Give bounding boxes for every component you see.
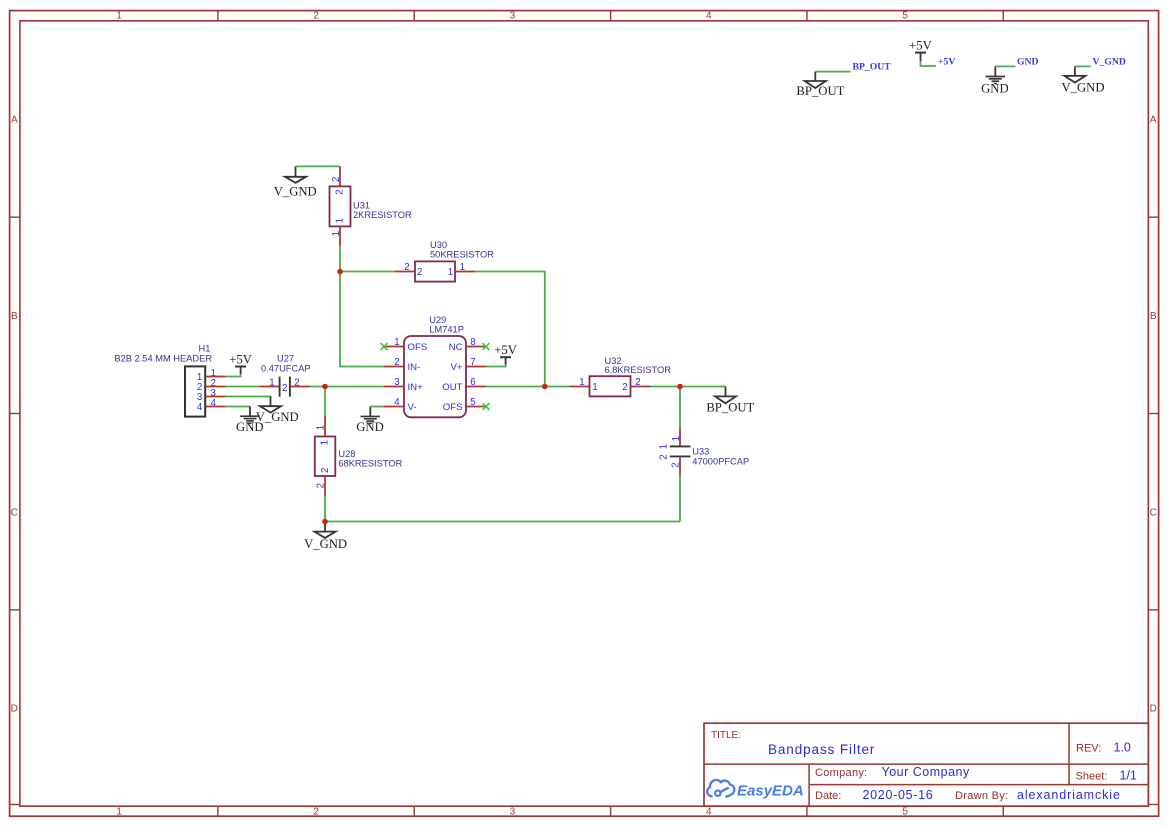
svg-text:V-: V- [408, 402, 417, 413]
svg-text:68KRESISTOR: 68KRESISTOR [338, 459, 402, 469]
wire [325, 386, 384, 388]
svg-text:2020-05-16: 2020-05-16 [863, 788, 934, 802]
svg-text:1: 1 [269, 377, 274, 388]
svg-text:OUT: OUT [442, 382, 462, 393]
svg-text:GND: GND [981, 82, 1009, 96]
wire [995, 65, 1015, 67]
svg-text:LM741P: LM741P [429, 325, 464, 335]
pin number 5 (U29) [470, 397, 475, 408]
svg-text:1/1: 1/1 [1120, 769, 1137, 783]
svg-text:U27: U27 [277, 354, 294, 364]
wire [1075, 65, 1091, 67]
svg-text:2: 2 [320, 468, 331, 473]
svg-text:6: 6 [470, 377, 475, 388]
pin number 2 (U32 right outside) [635, 377, 640, 388]
svg-text:B2B 2.54 MM HEADER: B2B 2.54 MM HEADER [114, 354, 212, 364]
pin number 2 (U31 top outside) [331, 177, 342, 182]
pin number 1 (U31 bottom outside) [331, 231, 342, 236]
net label BP_OUT [853, 61, 892, 72]
svg-text:V_GND: V_GND [1093, 56, 1126, 67]
svg-text:Drawn By:: Drawn By: [955, 790, 1008, 802]
wire [545, 386, 570, 388]
svg-text:2KRESISTOR: 2KRESISTOR [353, 210, 412, 220]
svg-text:4: 4 [211, 398, 217, 409]
label U33 47000PFCAP [692, 446, 749, 466]
pin number 2 (U28 bottom inside) [320, 468, 331, 473]
pin number 2 (U28 bottom outside) [316, 483, 327, 488]
pin number 2 (U33 outside) [671, 462, 682, 467]
svg-text:REV:: REV: [1076, 743, 1101, 755]
svg-text:4: 4 [706, 11, 712, 22]
resistor U30 [395, 261, 475, 281]
svg-text:Date:: Date: [815, 790, 841, 802]
svg-text:OFS: OFS [408, 342, 428, 353]
pin number 1 (U28 top inside) [320, 440, 331, 445]
svg-text:BP_OUT: BP_OUT [706, 401, 754, 415]
svg-text:OFS: OFS [443, 402, 463, 413]
svg-text:0.47UFCAP: 0.47UFCAP [261, 364, 311, 374]
svg-text:1: 1 [394, 337, 399, 348]
label U31 2KRESISTOR [353, 201, 412, 220]
pin number 2 (H1 inside) [197, 382, 202, 393]
svg-text:2: 2 [335, 190, 346, 195]
junction [677, 384, 683, 390]
svg-text:8: 8 [470, 337, 475, 348]
svg-text:4: 4 [394, 397, 400, 408]
svg-text:IN+: IN+ [408, 382, 424, 393]
svg-text:5: 5 [902, 11, 908, 22]
svg-text:B: B [1150, 311, 1157, 322]
svg-text:EasyEDA: EasyEDA [737, 782, 804, 799]
svg-text:+5V: +5V [909, 39, 932, 53]
wire [325, 521, 680, 523]
svg-text:2: 2 [404, 262, 409, 273]
svg-text:V_GND: V_GND [304, 537, 347, 551]
svg-text:GND: GND [356, 420, 384, 434]
wire [226, 374, 241, 376]
pin name IN+ (U29 pin3) [408, 382, 424, 393]
pin number 2 (U29) [394, 357, 399, 368]
pin number 8 (U29) [470, 337, 475, 348]
wire [815, 71, 850, 73]
header H1 B2B 2.54 MM HEADER [185, 366, 226, 416]
svg-text:1: 1 [316, 425, 327, 430]
pin number 1 (U27 outside) [269, 377, 274, 388]
label H1 B2B 2.54 MM HEADER [114, 343, 212, 363]
pin number 2 (U27 outside) [294, 377, 299, 388]
svg-text:3: 3 [394, 377, 399, 388]
wire [310, 386, 325, 388]
pin number 3 (U29) [394, 377, 399, 388]
pin number 1 (U33 inside) [659, 444, 670, 449]
ground V_GND (bottom) [304, 522, 347, 551]
pin name IN- (U29 pin2) [408, 362, 421, 373]
resistor U31 [330, 166, 351, 246]
net label +5V [938, 56, 955, 67]
svg-text:5: 5 [470, 397, 475, 408]
svg-text:1: 1 [116, 806, 122, 817]
svg-text:2: 2 [282, 383, 287, 394]
svg-text:5: 5 [902, 806, 908, 817]
svg-text:+5V: +5V [938, 56, 955, 67]
svg-text:V_GND: V_GND [1062, 80, 1105, 94]
pin number 2 (U27 inside) [282, 383, 287, 394]
power flag +5V (at U29 pin7) [494, 343, 517, 364]
resistor U32 [570, 376, 651, 396]
svg-text:BP_OUT: BP_OUT [796, 84, 844, 98]
svg-text:A: A [1150, 115, 1157, 126]
svg-text:V_GND: V_GND [274, 185, 317, 199]
svg-text:1: 1 [460, 262, 465, 273]
pin number 1 (U30 right inside) [448, 267, 453, 278]
pin number 2 (U31 top inside) [335, 190, 346, 195]
svg-text:C: C [11, 507, 18, 518]
svg-text:6.8KRESISTOR: 6.8KRESISTOR [605, 365, 672, 375]
pin name NC (U29 pin8) [449, 342, 463, 353]
pin name V+ (U29 pin7) [450, 362, 462, 373]
ground V_GND (at U31) [274, 166, 317, 198]
pin name V- (U29 pin4) [408, 402, 417, 413]
svg-text:1.0: 1.0 [1114, 741, 1131, 755]
svg-text:Bandpass Filter: Bandpass Filter [768, 742, 875, 757]
pin number 1 (U32 left outside) [579, 377, 584, 388]
ground GND (top right) [981, 66, 1009, 95]
wire [679, 476, 681, 522]
pin number 7 (U29) [470, 357, 475, 368]
pin number 1 (H1 inside) [197, 372, 202, 383]
svg-text:C: C [1150, 507, 1157, 518]
junction [337, 269, 343, 275]
pin number 1 (U33 outside) [671, 436, 682, 441]
net port BP_OUT (top right) [796, 72, 844, 99]
svg-text:2: 2 [622, 382, 627, 393]
svg-text:Your Company: Your Company [882, 765, 970, 779]
capacitor U33 47000PFCAP [670, 427, 691, 476]
ground V_GND (at H1 pin3) [256, 397, 299, 424]
wire [486, 365, 506, 367]
svg-text:3: 3 [510, 11, 516, 22]
ground GND (at H1 pin4) [236, 407, 264, 434]
svg-text:1: 1 [592, 382, 597, 393]
wire [921, 61, 937, 66]
svg-text:2: 2 [313, 11, 319, 22]
svg-text:2: 2 [417, 267, 422, 278]
wire [339, 246, 341, 271]
wire [679, 387, 681, 428]
pin name OUT (U29 pin6) [442, 382, 462, 393]
svg-text:4: 4 [197, 402, 203, 413]
svg-text:1: 1 [320, 440, 331, 445]
op-amp U29 LM741P [384, 336, 486, 417]
svg-text:U33: U33 [692, 446, 709, 456]
svg-text:1: 1 [116, 11, 122, 22]
svg-text:GND: GND [1017, 56, 1039, 67]
wire [475, 272, 545, 387]
svg-text:2: 2 [671, 462, 682, 467]
power flag +5V (top right) [909, 39, 932, 61]
pin number 4 (H1 outside) [211, 398, 217, 409]
label U27 0.47UFCAP [261, 354, 311, 374]
svg-text:D: D [11, 704, 18, 715]
wire [340, 272, 384, 367]
ground V_GND (top right) [1062, 66, 1105, 94]
svg-text:Company:: Company: [815, 767, 868, 779]
pin name OFS (U29 pin5) [443, 402, 463, 413]
svg-text:2: 2 [394, 357, 399, 368]
svg-text:2: 2 [331, 177, 342, 182]
wire [324, 387, 326, 417]
pin number 2 (U32 right inside) [622, 382, 627, 393]
pin number 4 (U29) [394, 397, 400, 408]
svg-text:4: 4 [706, 806, 712, 817]
pin name OFS (U29 pin1) [408, 342, 428, 353]
svg-text:7: 7 [470, 357, 475, 368]
label U32 6.8KRESISTOR [605, 356, 672, 375]
ground GND (at U29 pin4) [356, 407, 384, 435]
svg-text:2: 2 [635, 377, 640, 388]
svg-text:H1: H1 [199, 343, 211, 353]
svg-text:alexandriamckie: alexandriamckie [1017, 788, 1121, 802]
net port BP_OUT (right) [706, 387, 754, 415]
pin number 6 (U29) [470, 377, 475, 388]
svg-text:1: 1 [335, 218, 346, 223]
svg-text:2: 2 [294, 377, 299, 388]
pin number 1 (U28 top outside) [316, 425, 327, 430]
svg-text:TITLE:: TITLE: [711, 730, 741, 741]
svg-text:D: D [1150, 704, 1157, 715]
wire [226, 386, 260, 388]
svg-text:2: 2 [316, 483, 327, 488]
pin number 2 (H1 outside) [211, 378, 216, 389]
junction [542, 384, 548, 390]
pin number 3 (H1 inside) [197, 392, 202, 403]
pin number 1 (U29) [394, 337, 399, 348]
svg-text:1: 1 [659, 444, 670, 449]
wire [226, 406, 251, 408]
pin number 1 (H1 outside) [211, 368, 216, 379]
no-connect X (U29 pin1) [381, 343, 388, 350]
svg-text:2: 2 [659, 454, 670, 459]
svg-text:V+: V+ [450, 362, 462, 373]
label U28 68KRESISTOR [338, 449, 402, 468]
net label V_GND [1093, 56, 1126, 67]
svg-text:1: 1 [671, 436, 682, 441]
resistor U28 [315, 417, 336, 497]
label U30 50KRESISTOR [430, 240, 494, 259]
net label GND [1017, 56, 1039, 67]
svg-text:NC: NC [449, 342, 463, 353]
title block [704, 723, 1148, 806]
svg-text:3: 3 [510, 806, 516, 817]
pin number 2 (U33 inside) [659, 454, 670, 459]
wire [370, 406, 384, 408]
svg-text:IN-: IN- [408, 362, 421, 373]
svg-text:50KRESISTOR: 50KRESISTOR [430, 250, 494, 260]
svg-text:1: 1 [331, 231, 342, 236]
svg-text:Sheet:: Sheet: [1076, 771, 1108, 783]
power flag +5V (at H1 pin1) [229, 352, 252, 374]
pin number 1 (U32 left inside) [592, 382, 597, 393]
pin number 1 (U30 right outside) [460, 262, 465, 273]
wire [486, 386, 545, 388]
EasyEDA logo [707, 780, 804, 799]
pin number 4 (H1 inside) [197, 402, 203, 413]
wire [651, 386, 681, 388]
capacitor U27 0.47UFCAP [260, 377, 311, 397]
wire [324, 496, 326, 522]
wire [296, 165, 341, 167]
svg-text:1: 1 [579, 377, 584, 388]
svg-text:A: A [11, 115, 18, 126]
junction [322, 384, 328, 390]
wire [680, 386, 726, 388]
svg-text:GND: GND [236, 420, 264, 434]
pin number 2 (U30 left inside) [417, 267, 422, 278]
svg-text:2: 2 [313, 806, 319, 817]
svg-text:B: B [11, 311, 18, 322]
pin number 2 (U30 left outside) [404, 262, 409, 273]
wire [340, 271, 395, 273]
junction [322, 519, 328, 525]
svg-text:+5V: +5V [229, 352, 252, 366]
svg-text:BP_OUT: BP_OUT [853, 61, 892, 72]
pin number 1 (U31 bottom inside) [335, 218, 346, 223]
pin number 3 (H1 outside) [211, 388, 216, 399]
label U29 LM741P [429, 315, 464, 334]
svg-text:1: 1 [448, 267, 453, 278]
svg-text:47000PFCAP: 47000PFCAP [692, 457, 749, 467]
svg-text:+5V: +5V [494, 343, 517, 357]
no-connect X (U29 pin5) [483, 403, 490, 410]
no-connect X (U29 pin8) [483, 343, 490, 350]
wire [226, 396, 271, 398]
